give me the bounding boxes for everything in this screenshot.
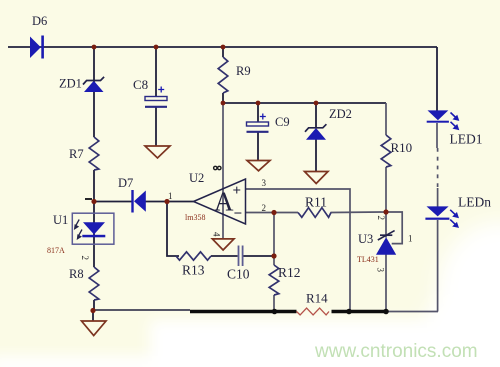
- svg-text:3: 3: [262, 178, 267, 188]
- svg-text:lm358: lm358: [185, 213, 205, 222]
- svg-text:D7: D7: [118, 176, 133, 190]
- svg-text:2: 2: [376, 216, 386, 221]
- svg-text:1: 1: [168, 191, 173, 201]
- svg-text:R14: R14: [306, 291, 328, 306]
- svg-text:R9: R9: [236, 64, 251, 78]
- svg-text:+: +: [233, 183, 242, 199]
- svg-text:R7: R7: [69, 147, 84, 161]
- svg-text:C8: C8: [133, 77, 148, 92]
- svg-text:R8: R8: [69, 267, 84, 281]
- svg-text:R13: R13: [182, 263, 205, 278]
- svg-text:U3: U3: [358, 232, 373, 246]
- svg-text:ZD1: ZD1: [59, 77, 82, 91]
- svg-text:C9: C9: [275, 115, 290, 129]
- svg-text:R10: R10: [391, 140, 413, 155]
- svg-text:D6: D6: [32, 14, 47, 28]
- svg-text:U1: U1: [53, 213, 68, 227]
- svg-text:2: 2: [262, 203, 267, 213]
- svg-text:1: 1: [408, 234, 413, 244]
- svg-text:C10: C10: [227, 267, 250, 282]
- svg-text:TL431: TL431: [357, 255, 379, 264]
- svg-text:2: 2: [80, 256, 90, 261]
- svg-text:U2: U2: [189, 171, 204, 185]
- svg-text:www.cntronics.com: www.cntronics.com: [314, 341, 478, 362]
- svg-text:ZD2: ZD2: [329, 107, 352, 121]
- svg-text:817A: 817A: [47, 246, 65, 255]
- svg-text:−: −: [234, 206, 243, 222]
- svg-text:A: A: [214, 187, 234, 217]
- svg-text:R12: R12: [278, 265, 301, 280]
- svg-text:LEDn: LEDn: [458, 195, 491, 210]
- svg-text:3: 3: [376, 268, 386, 273]
- svg-text:LED1: LED1: [450, 132, 483, 147]
- svg-text:R11: R11: [305, 195, 327, 210]
- svg-text:4: 4: [212, 232, 222, 237]
